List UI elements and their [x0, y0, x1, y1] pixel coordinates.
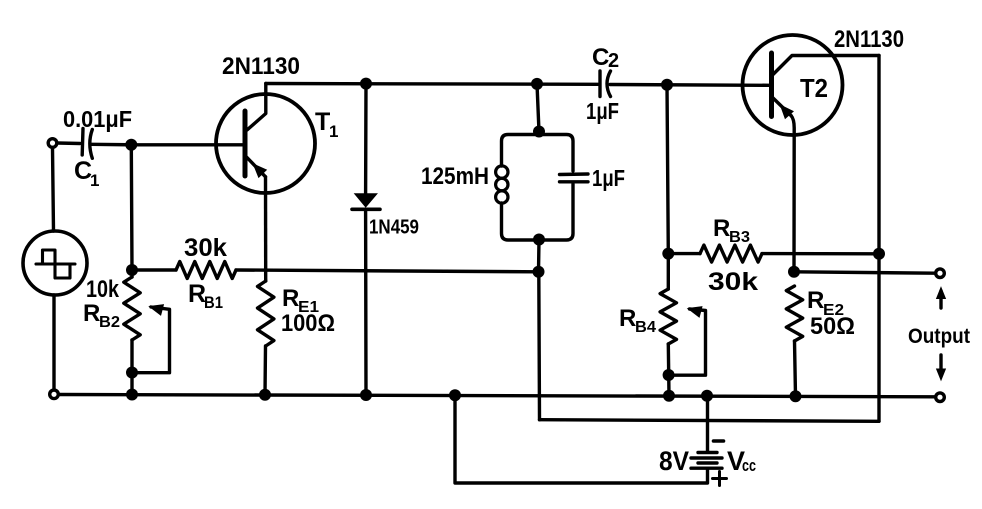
wire battery return	[455, 395, 708, 483]
capacitor tank 1uF	[560, 165, 626, 191]
output label	[908, 325, 970, 348]
svg-text:R: R	[807, 287, 824, 314]
wire node to RB2	[130, 145, 134, 270]
node rail battery	[701, 390, 713, 402]
wire RB2 to rail	[130, 340, 133, 395]
svg-text:1N459: 1N459	[369, 217, 419, 239]
svg-text:30k: 30k	[708, 268, 758, 296]
svg-text:30k: 30k	[184, 234, 227, 262]
node tank bottom	[533, 234, 545, 246]
svg-text:R: R	[713, 215, 730, 242]
wire C2 node down	[667, 85, 668, 254]
svg-text:Output: Output	[908, 325, 970, 348]
node RB1 row right	[533, 266, 545, 278]
resistor RE1	[258, 281, 336, 346]
svg-text:1μF: 1μF	[586, 98, 619, 124]
diode 1N459	[352, 194, 419, 238]
node top tank	[531, 78, 543, 90]
svg-text:1: 1	[329, 122, 338, 141]
wire RE1 to rail	[263, 346, 267, 395]
node RB4 bottom	[663, 369, 675, 381]
wire diode branch lower	[364, 209, 368, 395]
transistor T1 2N1130	[131, 53, 338, 193]
node RB2 bottom	[126, 367, 138, 379]
wire C1 to node	[91, 143, 132, 147]
node tank top	[533, 126, 545, 138]
wire T2 collector down	[877, 56, 880, 422]
svg-text:R: R	[83, 300, 100, 327]
svg-text:C: C	[592, 44, 609, 71]
svg-text:10k: 10k	[86, 276, 120, 303]
node RB3 right	[873, 248, 885, 260]
wire tank node down	[537, 272, 541, 420]
wire diode branch upper	[364, 84, 368, 195]
wire top rail	[266, 82, 598, 86]
wire ground rail	[59, 395, 935, 397]
inductor L1 125mH	[421, 163, 508, 203]
svg-text:B3: B3	[729, 229, 750, 246]
wire RB1 to tank node	[236, 270, 539, 272]
tank frame	[502, 135, 574, 241]
svg-text:B4: B4	[635, 319, 656, 336]
node RB3 left	[662, 248, 674, 260]
svg-text:2N1130: 2N1130	[222, 53, 300, 80]
resistor RB1 30k	[176, 234, 236, 312]
wire RB3 lead left	[668, 252, 700, 255]
wire output top	[794, 272, 936, 273]
wire RB2 node to RB1	[132, 268, 176, 271]
battery B1 8V Vcc	[659, 441, 756, 486]
node rail RE1	[259, 389, 271, 401]
wire lower rail	[540, 420, 880, 422]
node rail RB2	[126, 389, 138, 401]
svg-text:R: R	[619, 305, 636, 332]
svg-text:100Ω: 100Ω	[281, 310, 335, 337]
wire RE2 to rail	[795, 341, 796, 396]
wire T1 emitter to RE1	[264, 177, 268, 281]
svg-text:T2: T2	[800, 73, 828, 103]
node RE2 top	[788, 266, 800, 278]
output terminal top	[936, 269, 945, 278]
node rail battery-loop	[449, 389, 461, 401]
wire input to C1	[58, 141, 81, 145]
svg-text:cc: cc	[742, 456, 756, 475]
node top diode	[360, 78, 372, 90]
svg-text:1μF: 1μF	[592, 165, 625, 191]
svg-text:50Ω: 50Ω	[810, 313, 855, 340]
svg-text:125mH: 125mH	[421, 163, 489, 190]
transistor T2 2N1130	[743, 26, 905, 272]
wire input down to source	[53, 149, 54, 232]
node rail diode	[360, 389, 372, 401]
wire source to ground terminal	[52, 295, 55, 389]
svg-text:0.01μF: 0.01μF	[63, 106, 132, 132]
output up arrow	[937, 288, 946, 309]
RB4 tap arrow	[674, 307, 706, 376]
square-wave source V1	[23, 231, 87, 295]
svg-text:1: 1	[90, 171, 99, 190]
svg-text:B1: B1	[204, 293, 223, 312]
node rail RB4	[663, 390, 675, 402]
svg-text:R: R	[282, 285, 299, 312]
input terminal (bottom)	[50, 390, 59, 399]
input terminal (top)	[48, 139, 57, 148]
node RB2 top	[126, 264, 138, 276]
potentiometer RB4	[619, 289, 677, 344]
wire RB3 node to RB4	[667, 254, 670, 289]
wire battery top	[706, 396, 709, 451]
potentiometer RB2	[83, 270, 140, 340]
resistor RB3 30k	[700, 215, 762, 296]
svg-text:B2: B2	[99, 314, 120, 331]
output down arrow	[937, 355, 946, 380]
resistor RE2	[786, 286, 855, 341]
output terminal bottom	[936, 393, 945, 402]
wire top rail to tank	[537, 84, 539, 132]
svg-text:8V: 8V	[659, 446, 689, 476]
svg-text:T: T	[315, 108, 330, 136]
wire C2 to T2 base	[610, 83, 770, 87]
svg-text:2N1130: 2N1130	[834, 26, 904, 53]
wire RB3 lead right	[762, 252, 879, 256]
node after C2	[661, 79, 673, 91]
capacitor C2	[586, 44, 619, 124]
wire tank bottom to row node	[537, 240, 541, 272]
node rail RE2	[790, 390, 802, 402]
node after C1	[125, 139, 137, 151]
svg-text:2: 2	[608, 50, 619, 72]
capacitor C1	[63, 106, 132, 190]
wire RB4 to rail	[667, 344, 671, 396]
RB2 tap arrow	[137, 305, 170, 373]
